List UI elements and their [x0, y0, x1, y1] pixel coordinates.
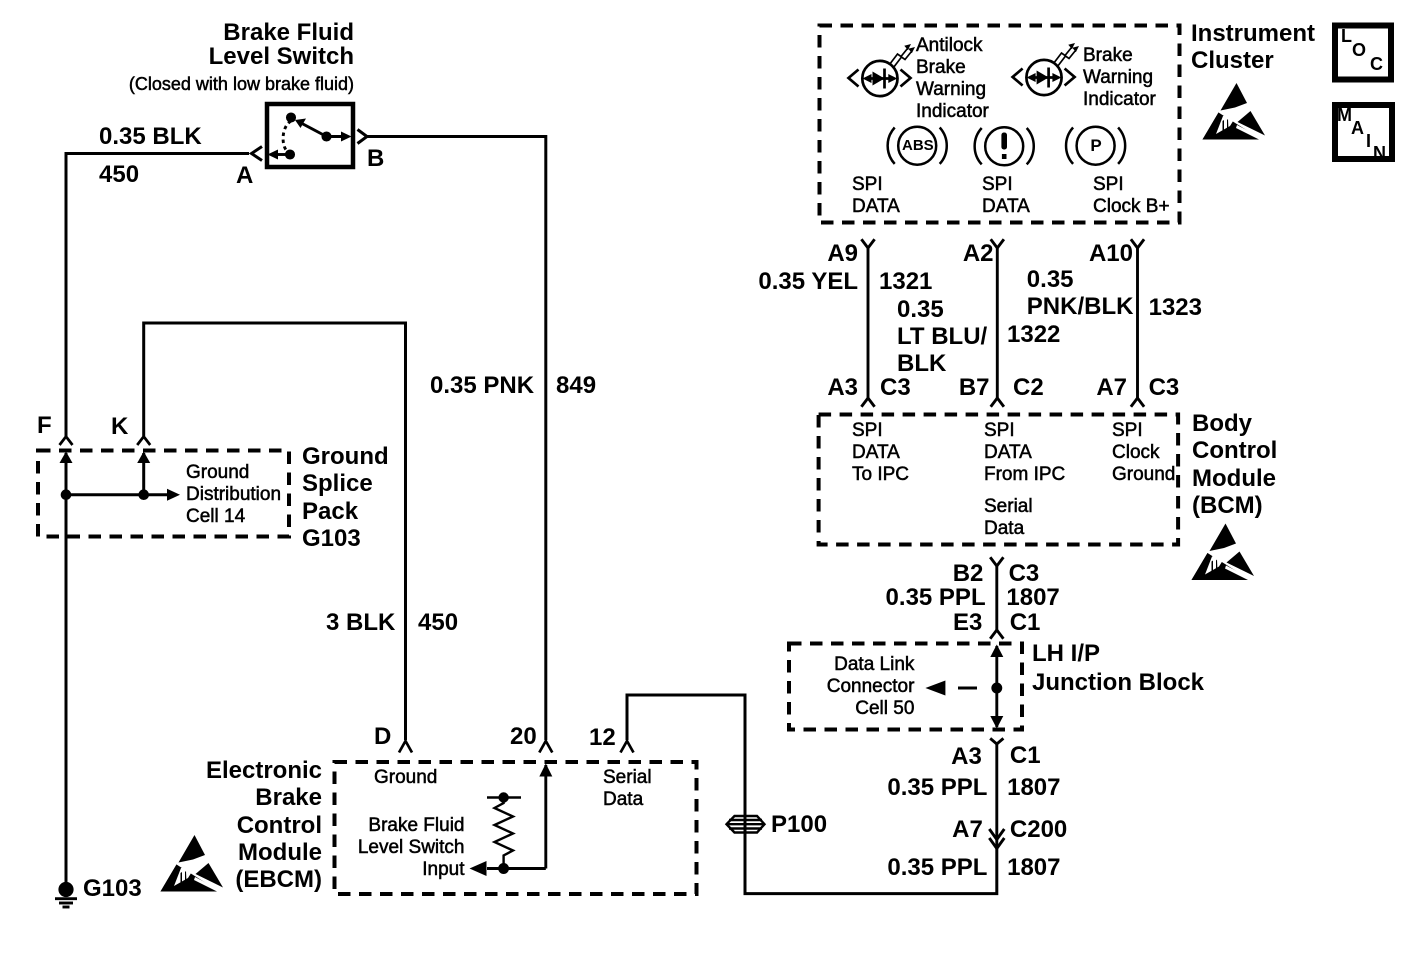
label: Ground Distribution Cell 14 [186, 462, 281, 528]
value label 0.35 PPL (C200-EBCM) [887, 854, 987, 881]
BCM pin function Serial Data [984, 496, 1033, 540]
wire: splice K up, right, down to EBCM D (3 BLK 450) [144, 323, 406, 740]
dashed arrow to data link connector cell 50 [925, 681, 977, 696]
pin label 20 [510, 723, 537, 750]
pin label A2 [963, 240, 994, 267]
switch S1 internals [268, 114, 352, 160]
inline connector C200 double chevron [989, 829, 1004, 849]
BCM dashed box [819, 415, 1179, 545]
junction block internal wire with arrows [990, 645, 1003, 729]
brake fluid level switch S1 box [267, 104, 353, 167]
value label 0.35 PNK/BLK [1027, 266, 1134, 321]
IPC pin function SPI DATA (A9) [852, 174, 900, 218]
pin label K [111, 413, 128, 440]
ESD symbol (instrument cluster) [1203, 83, 1266, 142]
LH I/P junction block dashed box [789, 644, 1022, 730]
pin label A10 [1089, 240, 1133, 267]
ESD symbol (EBCM) [161, 835, 224, 894]
wire: switch B right then down to EBCM 20 (0.35 PNK 849) [367, 137, 546, 741]
instrument cluster dashed box [820, 26, 1180, 223]
splice pack internal arrow to Ground Distribution Cell 14 [66, 489, 180, 501]
pin label B2 [953, 560, 984, 587]
LOC reference letters [1341, 27, 1352, 45]
pin label C1 (junction top) [1010, 609, 1041, 636]
wire: switch A to splice pack F (0.35 BLK 450) [66, 154, 249, 437]
LED indicator DS1 (antilock brake warning) [862, 61, 897, 96]
pin label A7 (C200) [952, 816, 983, 843]
pin label 12 [589, 724, 616, 751]
pin label E3 [953, 609, 982, 636]
DS1 connector chevrons [849, 70, 859, 87]
value label 1807 (junction-C200) [1007, 774, 1060, 801]
BCM pin function SPI Clock Ground [1112, 420, 1175, 486]
pin label A9 [827, 240, 858, 267]
connector name P100 [771, 811, 827, 838]
pin label A3 (BCM) [827, 374, 858, 401]
pin label C200 [1010, 816, 1067, 843]
wire: IPC A2 to BCM B7 (0.35 LT BLU/BLK 1322) [991, 239, 1004, 406]
IPC pin function SPI Clock B+ [1093, 174, 1170, 218]
pin label D [374, 723, 391, 750]
EBCM pin function Ground [374, 767, 437, 789]
value label 1321 [879, 268, 932, 295]
pin label B [367, 145, 384, 172]
EBCM internal wire from pin20 with up arrow [470, 764, 553, 877]
LED indicator DS2 (brake warning) [1026, 60, 1061, 95]
wire: BCM B2 to junction block E3 (0.35 PPL 1807) [990, 557, 1003, 638]
connector half at pin B (male chevron) [358, 130, 368, 144]
ground name G103 [83, 875, 142, 902]
wire: junction block A3 to C200 to EBCM (0.35 PPL 1807) [990, 738, 1003, 847]
inline connector P100 symbol [727, 816, 765, 833]
LED1 label Antilock Brake Warning Indicator [916, 35, 989, 123]
pin label C3 (BCM right) [1149, 374, 1180, 401]
label: Brake Fluid Level Switch title [209, 21, 354, 69]
LOC reference box [1335, 26, 1391, 80]
value label 1323 [1149, 294, 1202, 321]
wire: IPC A10 to BCM A7 (0.35 PNK/BLK 1323) [1131, 239, 1144, 406]
pin label A [236, 162, 253, 189]
BCM pin function SPI DATA To IPC [852, 420, 909, 486]
pin label C1 (junction bottom) [1010, 742, 1041, 769]
ABS telltale lamp [888, 127, 947, 165]
label: LH I/P Junction Block [1032, 640, 1204, 697]
label: Electronic Brake Control Module (EBCM) [206, 757, 322, 893]
ground symbol G103 [55, 882, 77, 907]
fork connector at EBCM pin 12 [621, 741, 634, 753]
value label 0.35 LT BLU/ BLK [897, 296, 987, 378]
EBCM internal resistor R1 [487, 794, 521, 869]
label: Body Control Module (BCM) [1192, 410, 1277, 519]
value label 1807 (BCM-junction) [1006, 584, 1059, 611]
value label 849 [556, 372, 596, 399]
pin label C3 (junction wire) [1009, 560, 1040, 587]
label: Ground Splice Pack G103 [302, 443, 389, 552]
value label 1322 [1007, 321, 1060, 348]
LED2 label Brake Warning Indicator [1083, 45, 1156, 111]
value label 0.35 BLK [99, 123, 202, 150]
pin label F [37, 412, 52, 439]
pin label C2 [1013, 374, 1044, 401]
wire: IPC A9 to BCM A3 (0.35 YEL 1321) [861, 239, 874, 406]
label: Data Link Connector Cell 50 [827, 654, 915, 720]
pin label C3 (BCM) [880, 374, 911, 401]
EBCM dashed box [335, 762, 697, 894]
EBCM pin function Serial Data [603, 767, 652, 811]
pin label A3 (junction bottom) [951, 743, 982, 770]
fork connector at EBCM pin 20 [539, 741, 552, 753]
fork connector at K [137, 437, 150, 446]
wire: splice pack F down to ground G103 [65, 537, 68, 883]
value label 450 (EBCM ground wire) [418, 609, 458, 636]
EBCM pin function Brake Fluid Level Switch Input [358, 815, 465, 881]
ESD symbol (BCM) [1192, 524, 1255, 583]
splice pack wire F internal with up arrow [60, 452, 73, 538]
connector half at pin A (female chevron) [252, 147, 263, 161]
splice pack wire K internal with up arrow [137, 452, 150, 499]
DS1 light-emission arrows [890, 44, 916, 68]
value label 0.35 YEL [758, 268, 858, 295]
IPC pin function SPI DATA (A2) [982, 174, 1030, 218]
value label 3 BLK [326, 609, 395, 636]
BCM pin function SPI DATA From IPC [984, 420, 1065, 486]
value label 0.35 PPL (BCM-junction) [886, 584, 986, 611]
value label 1807 (C200-EBCM) [1007, 854, 1060, 881]
fork connector at F [60, 437, 73, 446]
pin label A7 (BCM) [1096, 374, 1127, 401]
value label 0.35 PNK [430, 372, 534, 399]
DS2 connector chevrons [1013, 69, 1023, 86]
wire: EBCM pin 12 serial data up/right to P100 then bottom to junction [627, 695, 997, 894]
label: Instrument Cluster [1191, 20, 1315, 75]
DS2 light-emission arrows [1054, 43, 1080, 67]
value label 450 [99, 161, 139, 188]
MAIN reference box [1335, 105, 1392, 159]
ABS telltale text [902, 138, 933, 154]
ground splice pack G103 dashed box [38, 451, 289, 537]
park brake telltale lamp (P) [1066, 127, 1125, 165]
P telltale text [1087, 137, 1105, 154]
label: closed with low brake fluid note [129, 73, 354, 95]
pin label B7 [959, 374, 990, 401]
fork connector at EBCM pin D [399, 741, 412, 753]
MAIN reference letters [1337, 106, 1352, 124]
brake telltale lamp (!) [975, 127, 1034, 165]
value label 0.35 PPL (junction-C200) [887, 774, 987, 801]
